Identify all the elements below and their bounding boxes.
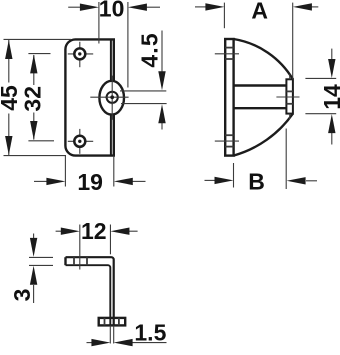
svg-text:19: 19 bbox=[77, 169, 103, 195]
svg-text:14: 14 bbox=[319, 84, 340, 110]
svg-text:3: 3 bbox=[9, 289, 35, 302]
svg-text:4.5: 4.5 bbox=[136, 32, 162, 68]
svg-text:10: 10 bbox=[99, 0, 125, 22]
svg-text:12: 12 bbox=[81, 218, 107, 244]
svg-text:B: B bbox=[248, 168, 265, 194]
svg-text:A: A bbox=[251, 0, 268, 24]
svg-text:1.5: 1.5 bbox=[134, 320, 166, 346]
svg-text:32: 32 bbox=[19, 86, 45, 112]
